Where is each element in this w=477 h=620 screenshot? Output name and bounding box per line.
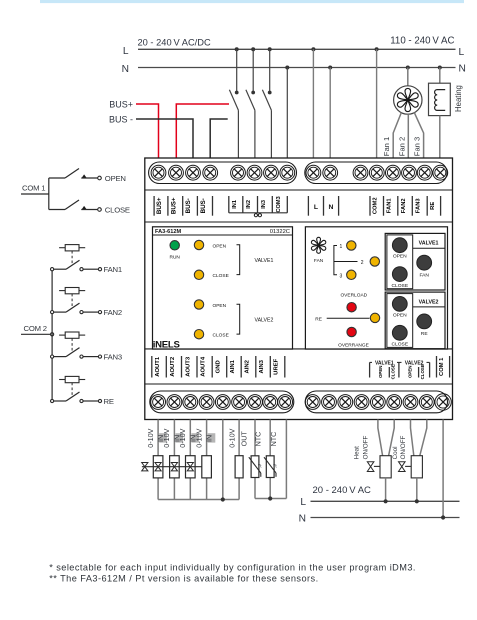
svg-text:RE: RE	[421, 331, 429, 337]
svg-text:FAN3: FAN3	[416, 198, 422, 214]
svg-text:OPEN: OPEN	[393, 312, 407, 318]
svg-text:AOUT4: AOUT4	[201, 356, 207, 377]
svg-text:01322C: 01322C	[270, 229, 290, 235]
svg-text:ON/OFF: ON/OFF	[400, 435, 407, 459]
svg-text:OVERLOAD: OVERLOAD	[340, 292, 367, 298]
svg-text:RE: RE	[430, 202, 436, 210]
svg-text:COM 1: COM 1	[22, 184, 45, 193]
svg-text:FAN: FAN	[314, 258, 324, 264]
svg-text:VALVE1: VALVE1	[419, 241, 439, 247]
svg-text:FAN3: FAN3	[104, 353, 122, 362]
svg-text:FAN1: FAN1	[104, 265, 122, 274]
svg-text:FAN2: FAN2	[104, 308, 122, 317]
svg-text:Cool: Cool	[392, 446, 399, 459]
svg-text:N: N	[329, 204, 334, 211]
svg-text:OUT: OUT	[240, 431, 249, 447]
svg-text:VALVE2: VALVE2	[255, 318, 274, 324]
svg-text:RE: RE	[104, 397, 114, 406]
svg-text:3: 3	[340, 273, 343, 279]
svg-text:2: 2	[361, 260, 364, 266]
svg-text:L: L	[314, 204, 318, 211]
svg-text:AIN3: AIN3	[259, 359, 265, 373]
svg-text:AOUT2: AOUT2	[170, 356, 176, 377]
svg-text:Fan 1: Fan 1	[382, 137, 391, 156]
svg-text:BUS+: BUS+	[109, 100, 133, 110]
svg-text:IN3: IN3	[261, 200, 267, 209]
svg-text:N: N	[122, 64, 129, 75]
svg-text:CLOSE: CLOSE	[420, 364, 425, 379]
svg-text:OPEN: OPEN	[213, 243, 227, 249]
svg-text:CLOSE: CLOSE	[392, 283, 409, 289]
svg-text:0-10V: 0-10V	[146, 428, 155, 447]
svg-text:RE: RE	[315, 317, 322, 323]
svg-text:* selectable for each input in: * selectable for each input individually…	[49, 563, 416, 573]
svg-text:COM 2: COM 2	[24, 324, 47, 333]
svg-text:110 - 240 V AC: 110 - 240 V AC	[390, 36, 454, 47]
svg-text:FAN2: FAN2	[401, 198, 407, 213]
svg-text:OPEN: OPEN	[378, 366, 383, 378]
svg-text:IN1: IN1	[232, 200, 238, 209]
svg-text:L: L	[459, 47, 465, 58]
svg-text:FAN1: FAN1	[387, 198, 393, 214]
svg-text:IN2: IN2	[246, 200, 252, 209]
svg-text:0-10V: 0-10V	[178, 428, 187, 447]
svg-text:Heating: Heating	[454, 85, 463, 112]
svg-text:Fan 3: Fan 3	[413, 137, 422, 156]
svg-text:NTC: NTC	[269, 432, 278, 447]
svg-text:t: t	[275, 463, 277, 468]
svg-text:OVERRANGE: OVERRANGE	[338, 343, 369, 349]
svg-text:1: 1	[340, 244, 343, 250]
svg-text:OPEN: OPEN	[105, 174, 126, 183]
svg-text:RUN: RUN	[169, 255, 180, 261]
svg-text:GND: GND	[215, 360, 221, 373]
svg-text:Heat: Heat	[354, 446, 361, 460]
svg-text:OPEN: OPEN	[408, 366, 413, 378]
svg-text:20 - 240 V AC: 20 - 240 V AC	[313, 485, 372, 496]
svg-text:BUS-: BUS-	[200, 198, 207, 213]
svg-text:CLOSE: CLOSE	[213, 273, 229, 279]
svg-text:0-10V: 0-10V	[162, 428, 171, 447]
svg-text:20 - 240 V AC/DC: 20 - 240 V AC/DC	[138, 38, 211, 48]
svg-text:NTC: NTC	[254, 432, 263, 447]
svg-text:OPEN: OPEN	[213, 303, 227, 309]
svg-text:AIN1: AIN1	[230, 359, 236, 373]
svg-text:IN: IN	[205, 435, 214, 442]
svg-text:COM2: COM2	[373, 197, 379, 214]
svg-text:VALVE1: VALVE1	[255, 258, 274, 264]
svg-text:CLOSE: CLOSE	[105, 206, 130, 215]
svg-text:AIN2: AIN2	[245, 359, 251, 373]
svg-text:BUS+: BUS+	[156, 197, 163, 214]
svg-text:VALVE2: VALVE2	[419, 299, 439, 305]
svg-text:CLOSE: CLOSE	[390, 364, 395, 379]
svg-text:L: L	[300, 497, 306, 508]
svg-text:L: L	[123, 46, 129, 57]
svg-text:** The FA3-612M / Pt version i: ** The FA3-612M / Pt version is availabl…	[49, 574, 318, 584]
svg-text:Fan 2: Fan 2	[397, 137, 406, 156]
svg-text:COM 1: COM 1	[439, 357, 445, 376]
svg-text:FAN: FAN	[419, 273, 429, 279]
svg-text:UREF: UREF	[274, 358, 280, 374]
svg-text:ON/OFF: ON/OFF	[363, 435, 370, 459]
svg-text:BUS-: BUS-	[185, 198, 192, 213]
svg-text:N: N	[299, 514, 306, 525]
svg-text:AOUT3: AOUT3	[185, 356, 191, 377]
svg-text:N: N	[459, 64, 466, 75]
svg-text:CLOSE: CLOSE	[213, 333, 229, 339]
svg-text:0-10V: 0-10V	[227, 428, 236, 447]
svg-text:AOUT1: AOUT1	[155, 356, 161, 377]
svg-text:CLOSE: CLOSE	[392, 342, 409, 348]
svg-text:t: t	[260, 463, 262, 468]
svg-text:BUS+: BUS+	[170, 197, 177, 214]
svg-text:COM3: COM3	[276, 196, 282, 212]
svg-text:OPEN: OPEN	[393, 254, 407, 260]
svg-text:FA3-612M: FA3-612M	[155, 229, 181, 235]
svg-text:0-10V: 0-10V	[194, 428, 203, 447]
svg-text:BUS -: BUS -	[109, 115, 133, 125]
